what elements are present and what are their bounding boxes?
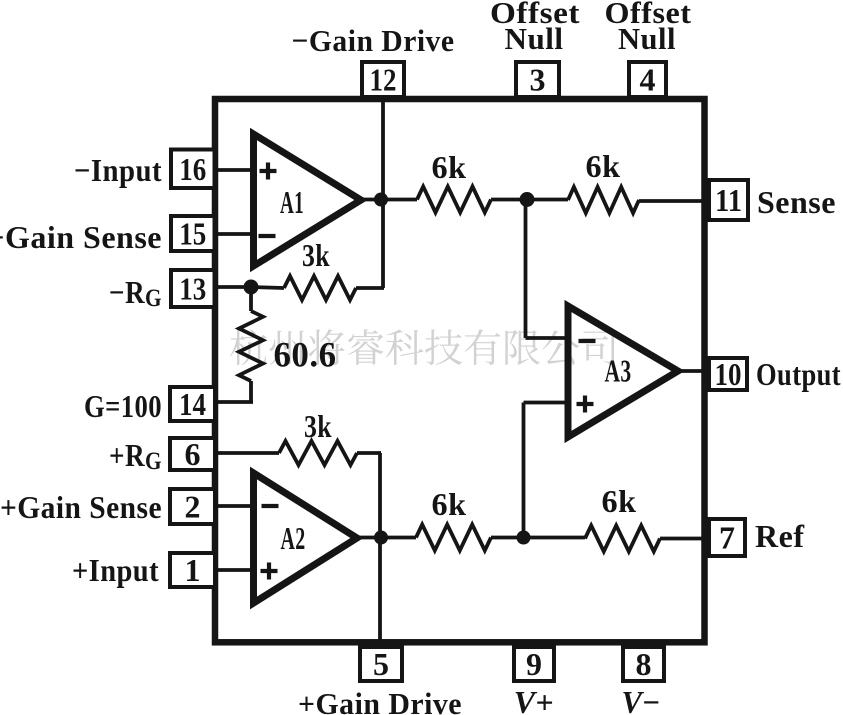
svg-text:V−: V− (622, 684, 661, 715)
svg-text:Output: Output (756, 356, 841, 392)
svg-text:7: 7 (719, 520, 735, 556)
svg-text:+Gain Sense: +Gain Sense (0, 489, 162, 525)
svg-text:−RG: −RG (109, 274, 162, 312)
svg-text:+RG: +RG (109, 437, 162, 475)
svg-text:6: 6 (185, 436, 201, 472)
svg-text:6k: 6k (586, 148, 621, 184)
svg-text:9: 9 (526, 646, 542, 682)
svg-text:A1: A1 (280, 184, 304, 220)
svg-text:+Gain Drive: +Gain Drive (298, 686, 462, 715)
svg-text:8: 8 (636, 646, 652, 682)
svg-text:5: 5 (373, 646, 389, 682)
svg-text:12: 12 (370, 62, 397, 98)
svg-text:3: 3 (530, 62, 546, 98)
svg-text:Null: Null (618, 21, 676, 56)
svg-text:−Gain Sense: −Gain Sense (0, 219, 162, 255)
svg-text:−Input: −Input (74, 152, 162, 188)
svg-text:1: 1 (185, 552, 201, 588)
svg-text:A3: A3 (605, 353, 632, 389)
svg-text:15: 15 (179, 216, 206, 252)
svg-text:V+: V+ (514, 684, 555, 715)
svg-text:14: 14 (179, 386, 206, 422)
svg-text:10: 10 (715, 356, 742, 392)
svg-text:11: 11 (715, 182, 742, 218)
svg-text:13: 13 (179, 271, 206, 307)
svg-text:4: 4 (640, 62, 656, 98)
svg-text:3k: 3k (302, 237, 330, 273)
svg-text:Null: Null (505, 21, 564, 56)
svg-text:+Input: +Input (72, 552, 159, 588)
svg-text:3k: 3k (304, 408, 332, 444)
svg-text:2: 2 (185, 489, 201, 525)
svg-text:60.6: 60.6 (274, 335, 337, 375)
svg-text:6k: 6k (432, 486, 467, 522)
svg-text:6k: 6k (432, 149, 467, 185)
svg-text:A2: A2 (281, 520, 306, 556)
svg-text:Sense: Sense (757, 184, 836, 220)
svg-text:G=100: G=100 (84, 388, 162, 424)
svg-text:16: 16 (179, 151, 206, 187)
svg-text:−Gain Drive: −Gain Drive (292, 23, 455, 58)
svg-text:6k: 6k (602, 483, 637, 519)
svg-text:Ref: Ref (755, 518, 804, 554)
